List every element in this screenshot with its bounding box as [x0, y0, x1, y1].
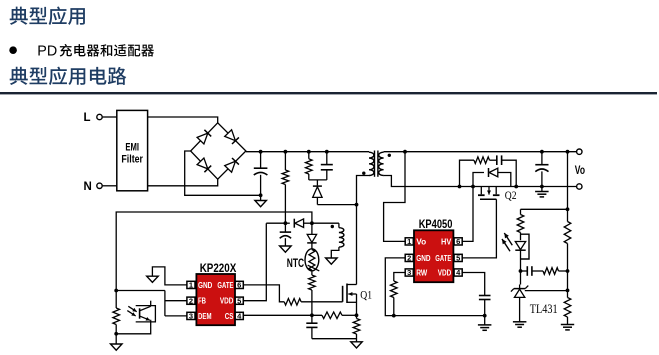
node switchnode-clamp	[355, 203, 359, 207]
node rail-C1	[259, 150, 263, 154]
wire bridge-neg to C1 bottom	[185, 151, 261, 195]
node rail-divider	[566, 150, 570, 154]
CS filter cap C7	[306, 315, 317, 338]
wire VDD to pin5	[243, 223, 266, 301]
svg-text:VDD: VDD	[220, 296, 234, 306]
RW resistor R3	[391, 273, 406, 316]
svg-text:VDD: VDD	[438, 268, 452, 278]
wire CS line	[243, 314, 322, 316]
aux sense bus	[116, 212, 312, 291]
IC U1 KP220X body	[196, 274, 235, 325]
svg-text:Vo: Vo	[416, 236, 426, 246]
node CS-Q1source	[355, 313, 359, 317]
node GND-RW	[392, 314, 396, 318]
KP4050 pin names	[416, 236, 451, 277]
svg-text:3: 3	[407, 268, 411, 277]
node comp-left	[519, 269, 523, 273]
wire Vo pin path	[384, 152, 406, 242]
node rail-Cout	[540, 150, 544, 154]
svg-text:Q2: Q2	[505, 188, 517, 202]
svg-text:PD: PD	[37, 43, 57, 59]
FB resistor R12	[113, 291, 120, 334]
svg-text:KP4050: KP4050	[419, 217, 453, 231]
node GND-CVdd	[483, 314, 487, 318]
ground arrow at C6	[280, 246, 292, 252]
upper divider resistor R4	[564, 222, 571, 272]
DEM diode D9	[307, 223, 316, 249]
node VDD-cap	[284, 221, 288, 225]
VDD capacitor C6	[280, 223, 291, 246]
node ref-node	[566, 289, 570, 293]
optocoupler LED D7	[515, 242, 525, 272]
KP220X pin boxes	[187, 281, 243, 321]
ground arrow at GND pin	[147, 276, 159, 282]
optocoupler transistor U3	[136, 306, 156, 322]
heading: 典型应用	[10, 7, 85, 25]
wire main DC rail	[246, 151, 369, 153]
bridge diode upper-right	[225, 130, 239, 144]
wire to FB pin	[165, 300, 187, 302]
terminal L	[97, 114, 102, 119]
sense resistor R10	[353, 315, 360, 342]
svg-text:GATE: GATE	[217, 280, 233, 290]
transformer T1 primary	[369, 152, 374, 176]
node comp-right	[566, 269, 570, 273]
wire emitter	[116, 320, 151, 333]
svg-text:Filter: Filter	[121, 154, 143, 166]
svg-text:Q1: Q1	[360, 288, 372, 302]
wire L-EMI	[103, 116, 117, 118]
svg-text:5: 5	[456, 254, 460, 263]
gate resistor R11	[243, 285, 342, 305]
bridge diode lower-left	[197, 158, 211, 172]
wire HV pin	[462, 187, 473, 242]
SR MOSFET Q2	[478, 187, 500, 200]
svg-text:N: N	[84, 181, 92, 193]
lower divider resistor R5	[564, 290, 571, 324]
T1 core	[375, 151, 378, 177]
wire opto-row	[521, 208, 568, 210]
wire clamp-switchnode	[317, 204, 356, 206]
heading: 典型应用电路	[10, 67, 127, 85]
bridge diode lower-right	[225, 158, 239, 172]
KP220X pin names	[198, 280, 234, 321]
svg-text:CS: CS	[225, 311, 234, 321]
svg-text:2: 2	[189, 296, 193, 305]
node return-Cout	[540, 185, 544, 189]
power MOSFET Q1	[343, 284, 357, 316]
svg-text:NTC: NTC	[287, 258, 304, 270]
wire EMI-bridge bottom	[148, 179, 218, 186]
CS series resistor R9	[322, 312, 357, 319]
earth ground at TL431	[513, 322, 527, 327]
wire divider drop	[567, 152, 569, 222]
startup resistor R1	[282, 152, 289, 224]
svg-text:2: 2	[407, 254, 411, 263]
node rail-R1	[284, 150, 288, 154]
label TL431	[530, 302, 558, 316]
wire aux top	[312, 222, 339, 224]
terminal Vo-	[577, 184, 582, 189]
wire primary bottom to switch node	[357, 176, 370, 285]
wire LED to TL431	[520, 271, 522, 285]
KP4050 VDD cap C4	[462, 273, 490, 316]
VDD diode D8	[285, 219, 312, 228]
EMI filter box	[117, 110, 148, 190]
aux winding W1	[339, 223, 344, 247]
bridge diode upper-left	[197, 130, 211, 144]
svg-text:1: 1	[407, 237, 411, 246]
snubber diode D6	[473, 168, 511, 187]
terminal Vo+	[577, 149, 582, 154]
wire aux bottom	[331, 247, 339, 258]
svg-text:5: 5	[237, 296, 241, 305]
wire TL431 ref	[525, 290, 568, 292]
bullet text: PD 充电器和适配器	[37, 43, 154, 59]
earth ground at divider	[561, 325, 574, 330]
optocoupler LED box	[521, 234, 530, 259]
label KP220X	[200, 261, 237, 275]
svg-text:1: 1	[189, 281, 193, 290]
node rail-Cclamp	[325, 150, 329, 154]
label N	[84, 181, 92, 193]
earth ground at Cout	[535, 187, 549, 197]
ground arrow at aux	[326, 258, 338, 264]
wire secondary return	[384, 176, 577, 187]
label NTC	[287, 258, 304, 270]
wire collector	[150, 301, 152, 307]
LED light arrows	[502, 233, 512, 251]
node divider-top	[566, 207, 570, 211]
node return-HV	[471, 185, 475, 189]
KP220X GND pin path	[152, 267, 187, 285]
node rail-Rclamp	[307, 150, 311, 154]
node return-snubberR	[514, 185, 518, 189]
compensation network C5 R6	[521, 266, 568, 276]
label Vo	[575, 163, 585, 177]
opto light arrows	[127, 306, 136, 316]
earth ground at C4	[478, 316, 492, 331]
aux winding dot	[331, 225, 334, 228]
wire clamp RC bottom	[309, 179, 327, 181]
wire divider mid	[567, 271, 569, 290]
ground arrow at sense	[351, 342, 362, 348]
bullet marker	[9, 46, 17, 54]
node FB	[114, 289, 118, 293]
wire Q2 gate to KP4050 GATE	[462, 199, 496, 258]
snubber RC branch	[460, 155, 517, 186]
svg-text:FB: FB	[198, 296, 206, 306]
svg-text:3: 3	[189, 312, 193, 321]
clamp resistor R2	[306, 152, 313, 180]
node rail-Vo-branch	[403, 150, 407, 154]
svg-text:TL431: TL431	[530, 302, 558, 316]
wire secondary top rail	[384, 151, 577, 153]
node return-snubberL	[458, 185, 462, 189]
svg-text:6: 6	[237, 281, 241, 290]
transformer T1 secondary	[379, 152, 384, 176]
label L	[84, 112, 91, 124]
wire VDD node	[266, 222, 285, 224]
wire CS gnd	[312, 338, 357, 340]
svg-text:DEM: DEM	[198, 311, 212, 321]
wire FB node	[116, 290, 165, 292]
svg-text:6: 6	[456, 237, 460, 246]
svg-text:Vo: Vo	[575, 163, 585, 177]
wire to DEM pin	[165, 315, 187, 317]
ground arrow at C1	[255, 195, 267, 206]
ground arrow at FB	[111, 334, 123, 350]
IC U2 KP4050 body	[414, 230, 453, 282]
svg-text:EMI: EMI	[125, 141, 139, 153]
node FB-gnd	[114, 332, 118, 336]
wire N-EMI	[103, 185, 117, 187]
label Q2	[505, 188, 517, 202]
svg-text:L: L	[84, 112, 91, 124]
bridge rectifier BD1 diamond	[191, 123, 246, 179]
NTC thermistor RT1	[305, 249, 319, 271]
svg-text:GND: GND	[198, 280, 212, 290]
wire FB-DEM vertical	[164, 291, 166, 316]
clamp diode D1	[313, 180, 322, 205]
wire EMI-bridge top	[148, 117, 218, 123]
wire KP4050 GND path	[385, 258, 484, 316]
bulk capacitor C1	[254, 152, 268, 196]
NTC series resistor R8	[309, 271, 316, 316]
svg-text:RW: RW	[416, 268, 428, 278]
T1 primary dot	[362, 172, 365, 175]
KP4050 pin boxes	[405, 237, 462, 277]
optocoupler LED resistor R7	[517, 209, 524, 240]
clamp capacitor C2	[321, 152, 333, 180]
svg-text:KP220X: KP220X	[200, 261, 237, 275]
svg-text:HV: HV	[441, 236, 452, 246]
node aux-anode	[310, 221, 314, 225]
node C1-bottom	[259, 193, 263, 197]
terminal N	[97, 183, 102, 188]
shunt regulator TL431	[511, 285, 528, 322]
svg-text:GND: GND	[416, 253, 430, 263]
T1 secondary dot	[388, 154, 391, 157]
svg-text:GATE: GATE	[435, 253, 451, 263]
label Q1	[360, 288, 372, 302]
label KP4050	[419, 217, 453, 231]
output capacitor Cout	[535, 152, 548, 187]
node CS-filter	[310, 313, 314, 317]
horizontal rule	[0, 92, 657, 94]
